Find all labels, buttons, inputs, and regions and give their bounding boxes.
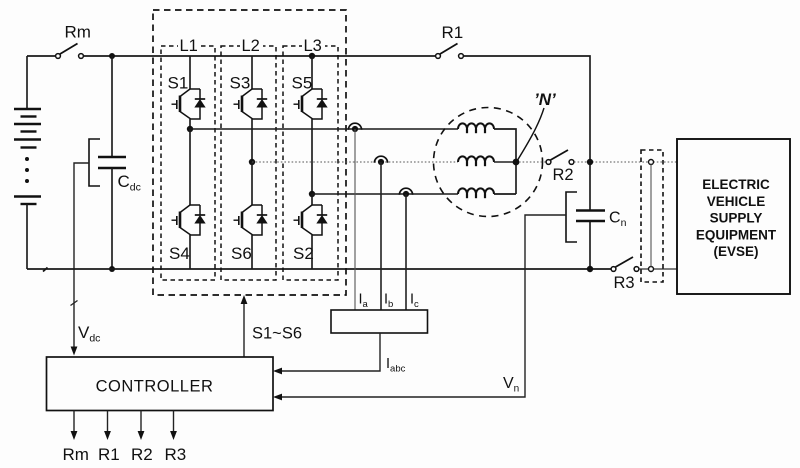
- transistor S3: [230, 74, 268, 120]
- wire: connector link: [650, 165, 652, 267]
- svg-text:CONTROLLER: CONTROLLER: [96, 378, 214, 396]
- wire: bottom DC- rail: [27, 268, 611, 270]
- inductor winding phase C: [458, 188, 494, 198]
- relay switch R3: [611, 257, 639, 292]
- node: junction Cn on bottom line: [587, 266, 593, 272]
- wire: top rail from R1 to right corner: [464, 56, 591, 210]
- svg-text:L3: L3: [304, 37, 322, 55]
- svg-text:R1: R1: [98, 445, 120, 464]
- wire: phase C line to motor: [312, 193, 458, 195]
- inductor winding phase A: [458, 123, 494, 133]
- wire: phase A line to motor: [190, 128, 458, 130]
- wire: S1~S6 gate drive from controller: [243, 300, 245, 357]
- node: junction of Cdc on DC- rail: [109, 266, 115, 272]
- svg-text:S2: S2: [293, 244, 314, 263]
- transistor S3 collector wire: [251, 56, 253, 89]
- wire: Vdc sense line down to controller: [74, 163, 89, 351]
- node: phase C junction: [309, 191, 315, 197]
- node: phase A junction: [187, 126, 193, 132]
- label L1: [178, 37, 201, 55]
- transistor S1 collector wire: [189, 56, 191, 89]
- wire: neutral to R2 (dotted): [519, 161, 546, 163]
- svg-text:SUPPLY: SUPPLY: [710, 211, 763, 226]
- node: S5 tap on DC+ rail: [309, 53, 315, 59]
- wire: phase A to S4: [189, 129, 191, 205]
- svg-text:L1: L1: [180, 37, 198, 55]
- wire: sensor A drop: [354, 129, 356, 310]
- transistor S6: [231, 205, 267, 263]
- controller output R3: [165, 411, 187, 465]
- svg-text:S1: S1: [168, 74, 189, 93]
- leg dashed box L3: [283, 46, 338, 280]
- svg-text:S5: S5: [292, 74, 313, 93]
- wire: top DC+ rail left segment from battery corner to Rm: [27, 55, 56, 57]
- node: junction of Cdc tap on DC+ rail: [109, 53, 115, 59]
- controller output Rm: [63, 411, 89, 465]
- transistor S2: [293, 205, 327, 263]
- wire: S3 emitter to phase B node: [251, 119, 253, 162]
- wire: R2 to EVSE neutral line: [574, 161, 677, 163]
- transistor S5: [292, 74, 328, 120]
- svg-text:ELECTRIC: ELECTRIC: [702, 177, 770, 192]
- label L3: [302, 37, 325, 55]
- EVSE box: [677, 139, 790, 294]
- wire: Iabc to controller: [278, 333, 380, 371]
- wire: phase B line to motor (dotted): [252, 161, 458, 163]
- transistor S4: [169, 205, 205, 263]
- svg-text:EQUIPMENT: EQUIPMENT: [696, 227, 777, 242]
- connector pin top: [649, 160, 654, 165]
- arrowhead: Vn into controller: [273, 394, 282, 401]
- Cn sense bracket: [566, 192, 577, 242]
- wire: sensor C drop: [405, 194, 407, 310]
- svg-text:S4: S4: [169, 244, 190, 263]
- wire: phase A to neutral: [494, 129, 516, 194]
- node: phase B junction: [249, 159, 255, 165]
- wire: S1 emitter to phase A node: [189, 119, 191, 129]
- label L2: [240, 37, 263, 55]
- current sensor on phase A: [348, 123, 361, 132]
- transistor S1: [168, 74, 206, 120]
- wire: S5 emitter to phase C node: [311, 119, 313, 194]
- wire: phase B winding to neutral: [494, 161, 516, 163]
- wire: sensor B drop: [380, 162, 382, 310]
- EVSE connector dashed box: [641, 150, 663, 282]
- tick on Vdc line: [71, 301, 78, 306]
- current sensor on phase C: [399, 188, 412, 197]
- tick on DC- rail: [43, 268, 48, 272]
- node: junction neutral line with R1 branch: [587, 159, 593, 165]
- wire: phase C to S2: [311, 194, 313, 205]
- Cdc sense bracket: [89, 139, 100, 186]
- leg dashed box L1: [161, 46, 215, 280]
- motor dashed circle: [434, 108, 543, 217]
- svg-text:S1~S6: S1~S6: [252, 325, 302, 343]
- arrowhead: Vdc into controller: [71, 347, 78, 356]
- svg-text:R3: R3: [614, 274, 635, 292]
- svg-text:L2: L2: [242, 37, 260, 55]
- arrowhead: S1~S6 up into inverter: [241, 295, 248, 304]
- svg-text:Rm: Rm: [65, 23, 91, 42]
- svg-text:R2: R2: [553, 166, 574, 184]
- wire: Vn sense line down to controller: [278, 215, 566, 397]
- wire: S4 emitter to DC- rail: [189, 235, 191, 269]
- inverter outer dashed box: [153, 10, 346, 295]
- connector pin bottom: [649, 267, 654, 272]
- wire: top DC+ rail from Rm to R1: [84, 55, 436, 57]
- current sensor on phase B: [374, 156, 387, 165]
- transistor S5 collector wire: [311, 56, 313, 89]
- controller output R1: [98, 411, 120, 465]
- node N neutral point: [513, 159, 520, 166]
- inductor winding phase B: [458, 156, 494, 166]
- svg-text:VEHICLE: VEHICLE: [707, 194, 766, 209]
- svg-text:Rm: Rm: [63, 445, 89, 464]
- svg-text:S3: S3: [230, 74, 251, 93]
- svg-text:R1: R1: [442, 23, 464, 42]
- wire: phase C to neutral: [494, 193, 516, 195]
- controller box: [47, 357, 274, 411]
- wire: R3 to EVSE bottom line: [639, 268, 677, 270]
- svg-text:R2: R2: [131, 445, 153, 464]
- current sensor box: [331, 310, 428, 333]
- wire: S2 emitter to DC- rail: [311, 235, 313, 269]
- relay switch R1: [436, 23, 464, 58]
- leg dashed box L2: [221, 46, 276, 280]
- arrowhead: Iabc into controller: [273, 368, 282, 375]
- relay switch R2: [546, 150, 574, 184]
- capacitor Cdc: [98, 56, 141, 269]
- battery stack: [14, 56, 41, 269]
- svg-text:’N’: ’N’: [534, 90, 556, 109]
- label 'N' with leader: [517, 90, 556, 161]
- wire: S6 emitter to DC- rail: [251, 235, 253, 269]
- controller output R2: [131, 411, 153, 465]
- relay switch Rm: [56, 23, 91, 59]
- capacitor Cn: [576, 210, 627, 270]
- svg-text:(EVSE): (EVSE): [713, 244, 758, 259]
- wire: phase B to S6: [251, 162, 253, 205]
- svg-text:S6: S6: [231, 244, 252, 263]
- svg-text:R3: R3: [165, 445, 187, 464]
